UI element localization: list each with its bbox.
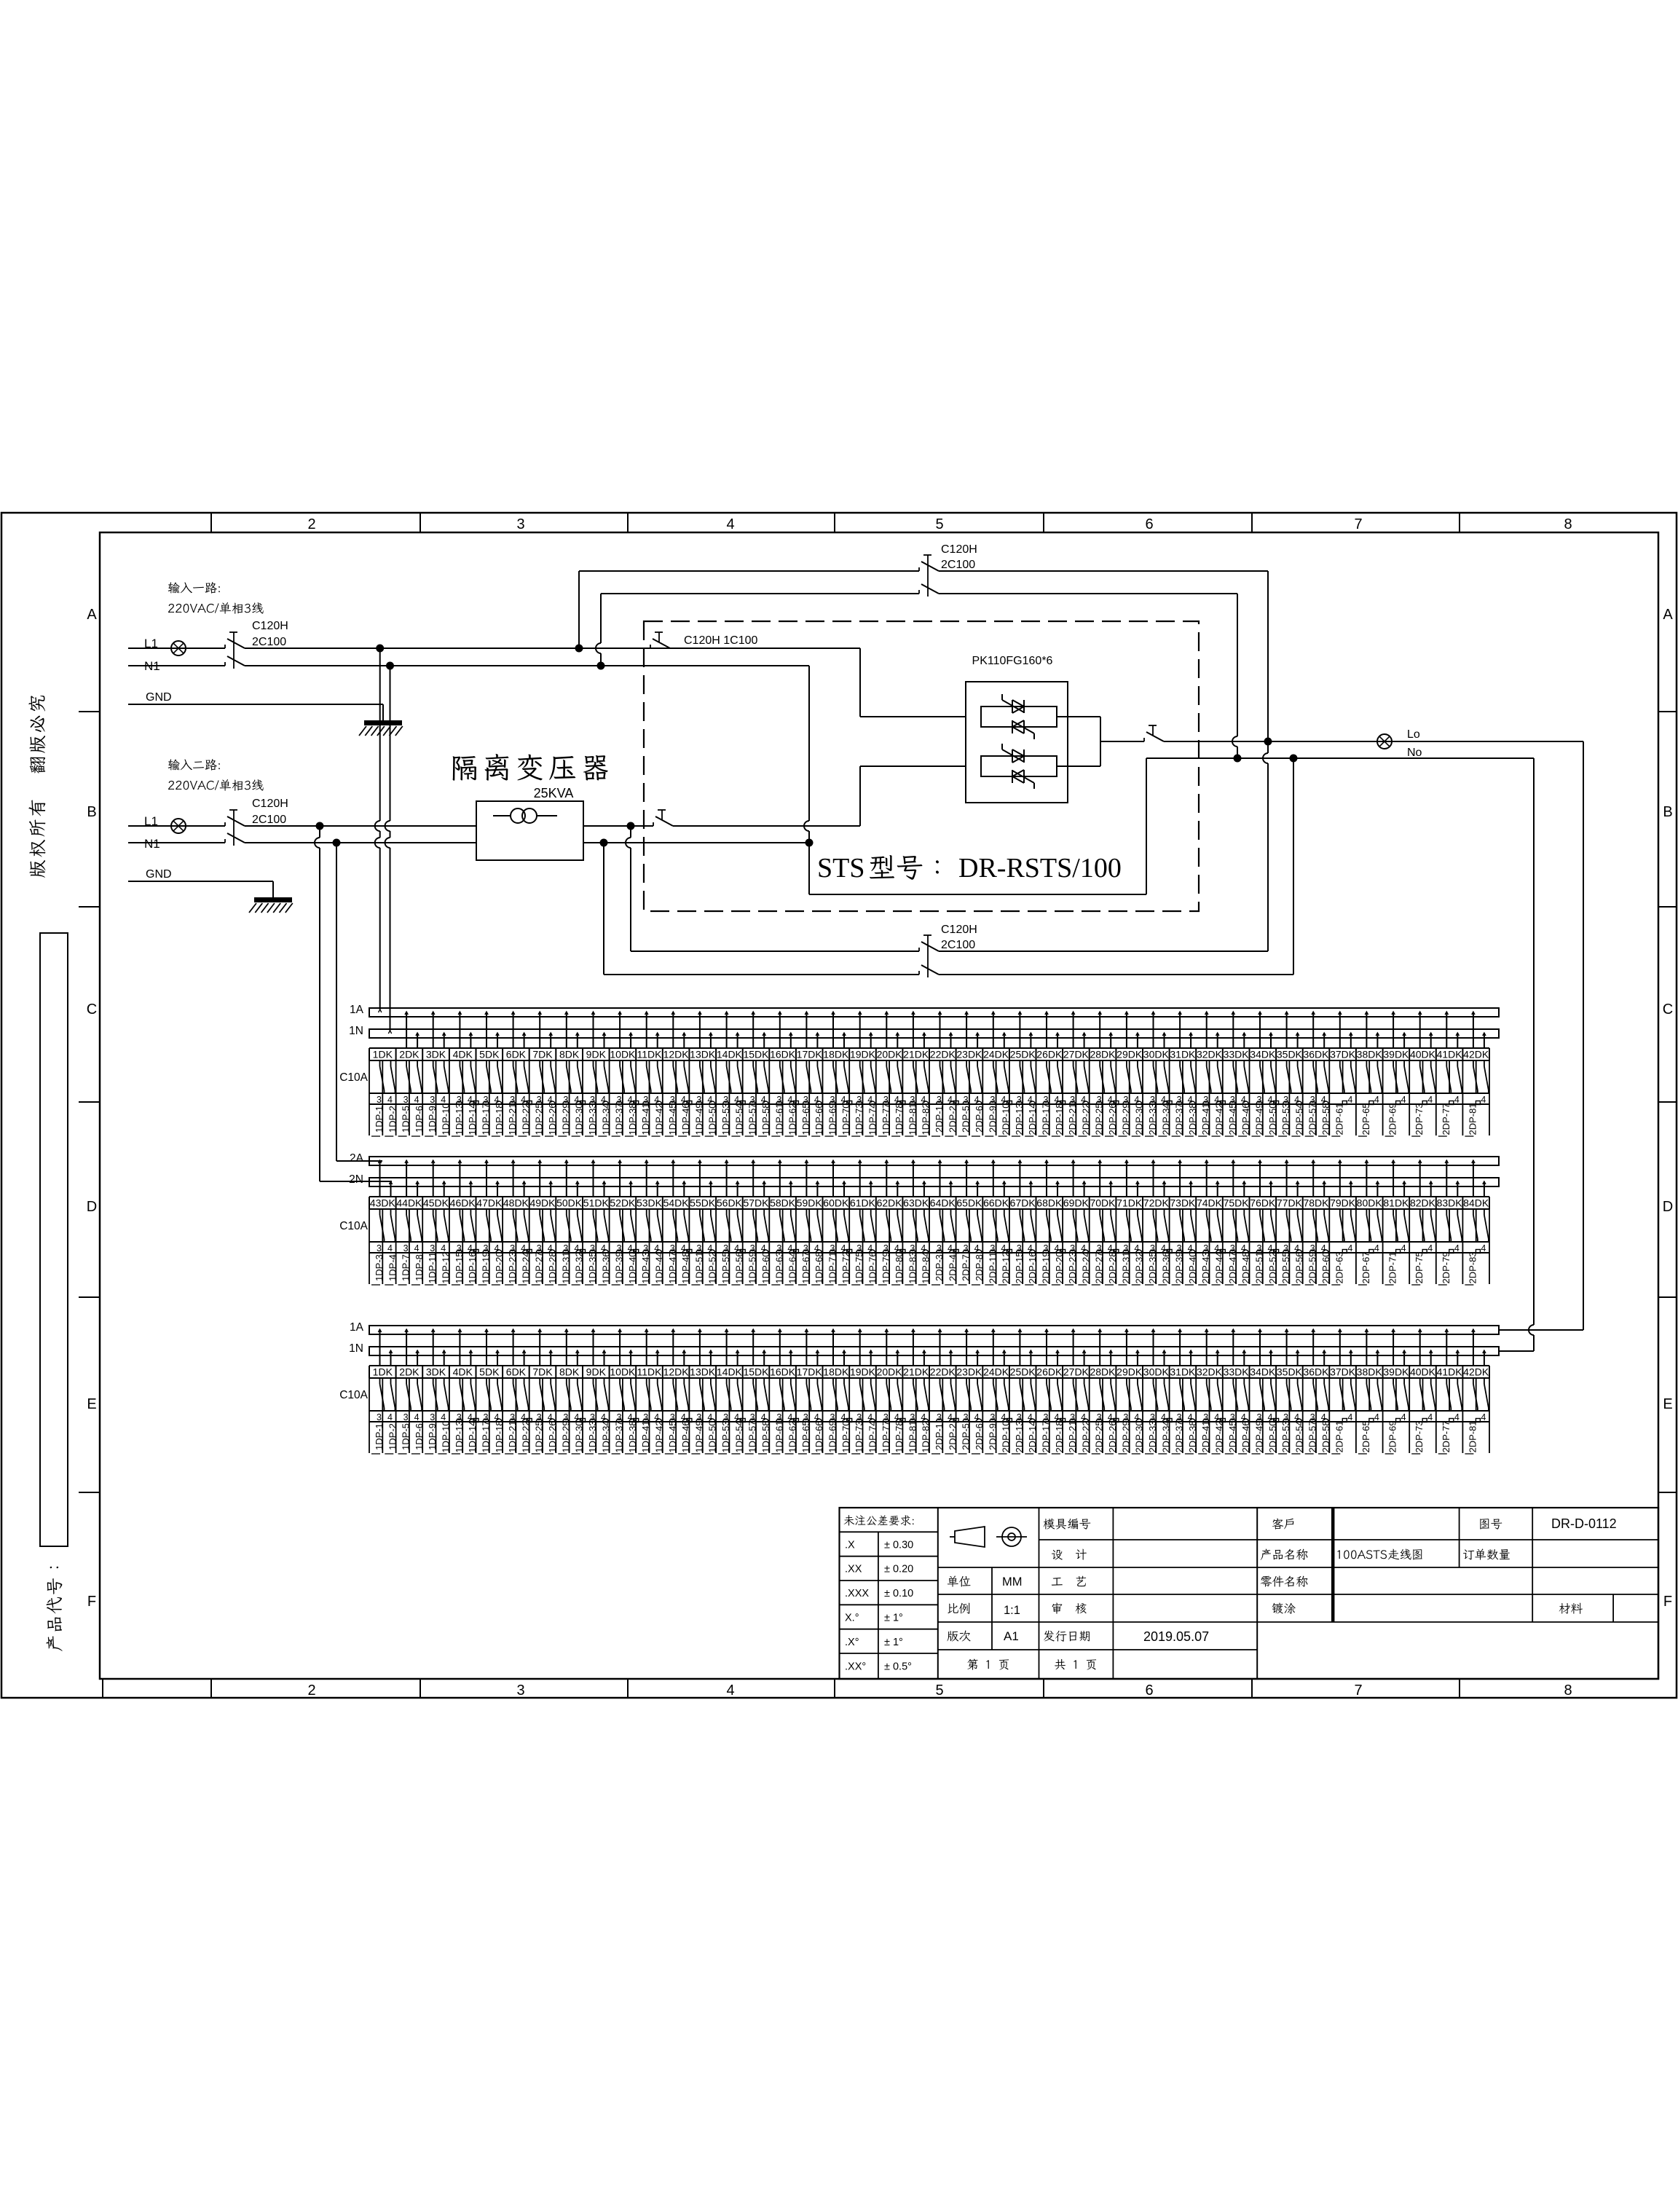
bus 1A row 3	[369, 1326, 1499, 1334]
svg-text:1DP-69: 1DP-69	[827, 1420, 838, 1452]
svg-text:F: F	[87, 1594, 96, 1610]
svg-text:80DK: 80DK	[1357, 1197, 1383, 1209]
svg-text:C120H: C120H	[252, 798, 288, 810]
svg-text:1DP-63: 1DP-63	[773, 1251, 784, 1283]
svg-text:2DP-30: 2DP-30	[1134, 1420, 1145, 1452]
breaker 54DK row 2	[663, 1160, 692, 1285]
svg-text:1DP-61: 1DP-61	[773, 1103, 784, 1135]
svg-text:1DP-41: 1DP-41	[640, 1420, 651, 1452]
svg-text:23DK: 23DK	[956, 1049, 982, 1060]
breaker 33DK row 3	[1224, 1329, 1252, 1454]
svg-text:1DP-51: 1DP-51	[693, 1251, 704, 1283]
svg-text:2DP-27: 2DP-27	[1094, 1251, 1105, 1283]
svg-text:1DP-30: 1DP-30	[574, 1420, 585, 1452]
svg-text:2DP-3: 2DP-3	[934, 1254, 945, 1281]
svg-text:66DK: 66DK	[983, 1197, 1009, 1209]
svg-text:1DP-49: 1DP-49	[693, 1103, 704, 1135]
svg-text:6: 6	[1145, 1682, 1153, 1699]
svg-text:61DK: 61DK	[850, 1197, 876, 1209]
svg-text:4: 4	[1454, 1095, 1460, 1105]
wire N2 to transformer	[245, 842, 476, 843]
svg-text:4DK: 4DK	[453, 1049, 473, 1060]
svg-text:1N: 1N	[349, 1342, 363, 1355]
svg-text:4: 4	[1481, 1095, 1486, 1105]
svg-text:12DK: 12DK	[663, 1049, 690, 1060]
svg-text:1DP-1: 1DP-1	[374, 1106, 385, 1133]
breaker 7DK row 1	[532, 1012, 558, 1136]
projection symbol	[950, 1527, 1027, 1547]
svg-text:3: 3	[377, 1095, 382, 1105]
svg-text:2DP-79: 2DP-79	[1441, 1251, 1451, 1283]
svg-text:7: 7	[1354, 516, 1362, 532]
svg-text:2DP-37: 2DP-37	[1174, 1420, 1185, 1452]
svg-text:71DK: 71DK	[1116, 1197, 1143, 1209]
svg-text:1DP-59: 1DP-59	[747, 1251, 758, 1283]
svg-text:1DP-56: 1DP-56	[733, 1251, 744, 1283]
svg-text:2DP-24: 2DP-24	[1080, 1251, 1091, 1283]
breaker 38DK row 3	[1357, 1329, 1383, 1454]
svg-text:2DP-42: 2DP-42	[1214, 1420, 1225, 1452]
svg-text:1DP-34: 1DP-34	[600, 1420, 611, 1452]
svg-text:1DK: 1DK	[373, 1049, 393, 1060]
isolation transformer label	[453, 756, 476, 781]
svg-text:7DK: 7DK	[532, 1366, 553, 1378]
svg-text:2DK: 2DK	[399, 1049, 419, 1060]
breaker 55DK row 2	[690, 1160, 718, 1285]
bus 2A row 2	[369, 1157, 1499, 1165]
svg-text:79DK: 79DK	[1330, 1197, 1356, 1209]
svg-text:1DP-70: 1DP-70	[840, 1103, 851, 1135]
breaker 42DK row 1	[1463, 1012, 1489, 1136]
svg-text:2DP-7: 2DP-7	[961, 1254, 972, 1281]
title block right labels	[1272, 1519, 1283, 1530]
svg-text:F: F	[1663, 1594, 1672, 1610]
junction neutral common	[805, 839, 814, 847]
svg-text:1:1: 1:1	[1004, 1604, 1020, 1617]
sheet outer border	[1, 513, 1677, 1698]
svg-text:72DK: 72DK	[1143, 1197, 1170, 1209]
svg-text:2DP-35: 2DP-35	[1147, 1251, 1158, 1283]
svg-text:10DK: 10DK	[610, 1049, 636, 1060]
title block right grid	[1257, 1539, 1658, 1540]
svg-text:6DK: 6DK	[506, 1366, 527, 1378]
svg-text:1DP-37: 1DP-37	[614, 1420, 625, 1452]
breaker 14DK row 1	[717, 1012, 745, 1136]
breaker 2DK row 1	[398, 1012, 425, 1136]
breaker 30DK row 1	[1143, 1012, 1172, 1136]
svg-text:1DP-32: 1DP-32	[574, 1251, 585, 1283]
svg-text:48DK: 48DK	[503, 1197, 529, 1209]
breaker 24DK row 3	[983, 1329, 1012, 1454]
svg-text:C120H: C120H	[941, 543, 977, 556]
left margin copyright text	[28, 696, 45, 878]
svg-text:2DP-42: 2DP-42	[1214, 1103, 1225, 1135]
svg-text:2DP-32: 2DP-32	[1134, 1251, 1145, 1283]
svg-text:1DP-1: 1DP-1	[374, 1423, 385, 1450]
svg-text:22DK: 22DK	[930, 1366, 956, 1378]
svg-text:2C100: 2C100	[941, 559, 975, 571]
svg-text:13DK: 13DK	[690, 1366, 716, 1378]
svg-text:1DP-58: 1DP-58	[760, 1420, 771, 1452]
svg-text:1DP-46: 1DP-46	[680, 1103, 691, 1135]
svg-text:1DP-75: 1DP-75	[854, 1251, 864, 1283]
svg-text:8DK: 8DK	[559, 1366, 580, 1378]
svg-text:1DP-12: 1DP-12	[441, 1251, 452, 1283]
svg-text:21DK: 21DK	[903, 1366, 929, 1378]
svg-text:1DP-73: 1DP-73	[854, 1103, 864, 1135]
riser No to row-3 bus 1N	[1533, 758, 1535, 1325]
wire No output	[1146, 757, 1534, 759]
svg-text:4: 4	[1374, 1412, 1379, 1422]
breaker 81DK row 2	[1383, 1160, 1409, 1285]
svg-text:1DP-54: 1DP-54	[733, 1420, 744, 1452]
bus 2N row 2	[369, 1178, 1499, 1186]
junction L1 to bus 1A riser	[376, 645, 384, 653]
svg-text:3: 3	[990, 1243, 995, 1253]
breaker 29DK row 3	[1116, 1329, 1145, 1454]
svg-text:5DK: 5DK	[479, 1049, 500, 1060]
svg-text:2DP-6: 2DP-6	[974, 1106, 985, 1133]
svg-text:± 0.30: ± 0.30	[884, 1539, 913, 1551]
riser input-2 L to bus 2N	[319, 826, 320, 838]
svg-text:3: 3	[377, 1412, 382, 1422]
svg-text:2DP-25: 2DP-25	[1094, 1103, 1105, 1135]
svg-text:2: 2	[307, 1682, 315, 1699]
switch C120H 1C100 input-1 STS	[650, 645, 651, 648]
svg-text:14DK: 14DK	[717, 1049, 743, 1060]
breaker 21DK row 1	[903, 1012, 931, 1136]
breaker 69DK row 2	[1063, 1160, 1092, 1285]
breaker 17DK row 3	[797, 1329, 825, 1454]
breaker 77DK row 2	[1277, 1160, 1305, 1285]
svg-text:59DK: 59DK	[797, 1197, 823, 1209]
svg-text:1DP-73: 1DP-73	[854, 1420, 864, 1452]
svg-text:2: 2	[307, 516, 315, 532]
svg-text:4: 4	[387, 1412, 393, 1422]
svg-text:2DP-14: 2DP-14	[1027, 1103, 1038, 1135]
breaker 49DK row 2	[529, 1160, 558, 1285]
breaker 12DK row 3	[663, 1329, 692, 1454]
svg-text:Lo: Lo	[1407, 728, 1420, 741]
svg-text:1DP-29: 1DP-29	[560, 1103, 571, 1135]
svg-text:4: 4	[1347, 1095, 1352, 1105]
svg-text:1DP-31: 1DP-31	[560, 1251, 571, 1283]
junction L1 to bypass riser	[575, 645, 583, 653]
wire L1 after QF1	[245, 648, 860, 649]
svg-text:2DP-12: 2DP-12	[1001, 1251, 1012, 1283]
svg-text:2DP-21: 2DP-21	[1067, 1103, 1078, 1135]
svg-text:4: 4	[1401, 1412, 1406, 1422]
breaker 17DK row 1	[797, 1012, 825, 1136]
svg-text:4: 4	[1454, 1412, 1460, 1422]
breaker 18DK row 3	[823, 1329, 851, 1454]
svg-text:15DK: 15DK	[743, 1366, 769, 1378]
svg-text:± 0.5°: ± 0.5°	[884, 1661, 912, 1672]
svg-text:57DK: 57DK	[743, 1197, 769, 1209]
svg-text:67DK: 67DK	[1010, 1197, 1036, 1209]
lamp input-2	[171, 819, 186, 833]
breaker 19DK row 1	[850, 1012, 878, 1136]
breaker 37DK row 1	[1330, 1012, 1356, 1136]
svg-text:2DP-61: 2DP-61	[1334, 1103, 1344, 1135]
svg-text:2DP-53: 2DP-53	[1280, 1103, 1291, 1135]
breaker 26DK row 1	[1036, 1012, 1065, 1136]
svg-text:3: 3	[430, 1243, 435, 1253]
svg-text:40DK: 40DK	[1410, 1366, 1436, 1378]
svg-text:7: 7	[1354, 1682, 1362, 1699]
svg-text:2N: 2N	[349, 1173, 363, 1186]
svg-text:2DP-15: 2DP-15	[1014, 1251, 1025, 1283]
riser input-1 N to bus 1N	[390, 666, 391, 821]
breaker 38DK row 1	[1357, 1012, 1383, 1136]
breaker 29DK row 1	[1116, 1012, 1145, 1136]
breaker 40DK row 3	[1410, 1329, 1436, 1454]
svg-text:38DK: 38DK	[1357, 1049, 1383, 1060]
breaker 37DK row 3	[1330, 1329, 1356, 1454]
breaker 80DK row 2	[1357, 1160, 1383, 1285]
breaker 25DK row 3	[1010, 1329, 1039, 1454]
svg-text:C120H 1C100: C120H 1C100	[684, 634, 758, 647]
breaker 9DK row 1	[585, 1012, 611, 1136]
svg-text:2DP-65: 2DP-65	[1360, 1420, 1371, 1452]
svg-text:4: 4	[1427, 1412, 1433, 1422]
breaker 28DK row 1	[1090, 1012, 1118, 1136]
svg-text:5: 5	[935, 1682, 943, 1699]
svg-text:1DP-10: 1DP-10	[441, 1420, 452, 1452]
svg-text:55DK: 55DK	[690, 1197, 716, 1209]
svg-text:± 0.20: ± 0.20	[884, 1564, 913, 1575]
svg-text:± 1°: ± 1°	[884, 1613, 903, 1624]
svg-text:4: 4	[948, 1095, 953, 1105]
svg-text:1A: 1A	[350, 1004, 364, 1016]
svg-text:C: C	[1663, 1001, 1673, 1018]
breaker 84DK row 2	[1463, 1160, 1489, 1285]
svg-text:2DP-1: 2DP-1	[934, 1423, 945, 1450]
svg-text:1DP-25: 1DP-25	[534, 1420, 545, 1452]
breaker 62DK row 2	[877, 1160, 905, 1285]
svg-text:1DP-22: 1DP-22	[520, 1103, 531, 1135]
svg-text:2DP-38: 2DP-38	[1187, 1420, 1198, 1452]
svg-text:2DP-29: 2DP-29	[1120, 1103, 1131, 1135]
svg-text:4DK: 4DK	[453, 1366, 473, 1378]
svg-text:2DP-46: 2DP-46	[1240, 1420, 1251, 1452]
svg-text:3: 3	[964, 1243, 969, 1253]
svg-text:74DK: 74DK	[1197, 1197, 1223, 1209]
wire ferrule marks row 2	[456, 1250, 462, 1253]
svg-text:2DP-29: 2DP-29	[1120, 1420, 1131, 1452]
svg-text:2DP-9: 2DP-9	[987, 1106, 998, 1133]
svg-text:2DP-77: 2DP-77	[1441, 1420, 1451, 1452]
breaker 9DK row 3	[585, 1329, 611, 1454]
svg-text:2DP-9: 2DP-9	[987, 1423, 998, 1450]
svg-text:2DP-36: 2DP-36	[1160, 1251, 1171, 1283]
feed wire No into row-3 bus 1N	[1500, 1350, 1534, 1352]
svg-text:4: 4	[948, 1412, 953, 1422]
svg-text:2DP-81: 2DP-81	[1467, 1103, 1478, 1135]
svg-text:41DK: 41DK	[1437, 1049, 1463, 1060]
breaker 30DK row 3	[1143, 1329, 1172, 1454]
svg-text:PK110FG160*6: PK110FG160*6	[972, 655, 1053, 667]
svg-text:1DP-57: 1DP-57	[747, 1420, 758, 1452]
svg-text:20DK: 20DK	[877, 1049, 903, 1060]
breaker 19DK row 3	[850, 1329, 878, 1454]
svg-text:1DP-26: 1DP-26	[547, 1103, 558, 1135]
svg-text:2C100: 2C100	[252, 814, 286, 826]
svg-text:2019.05.07: 2019.05.07	[1143, 1629, 1209, 1644]
breaker 5DK row 1	[478, 1012, 505, 1136]
svg-text:1DP-77: 1DP-77	[881, 1420, 891, 1452]
breaker 51DK row 2	[583, 1160, 612, 1285]
sheet inner border	[100, 532, 1658, 1679]
breaker 68DK row 2	[1036, 1160, 1065, 1285]
svg-text:2DP-63: 2DP-63	[1334, 1251, 1344, 1283]
product code label	[47, 1567, 63, 1651]
svg-text:2DP-69: 2DP-69	[1387, 1103, 1398, 1135]
svg-text:2DP-20: 2DP-20	[1054, 1251, 1065, 1283]
svg-text:3: 3	[403, 1412, 409, 1422]
breaker 32DK row 1	[1197, 1012, 1225, 1136]
breaker 20DK row 3	[877, 1329, 905, 1454]
breaker 1DK row 3	[371, 1329, 398, 1454]
svg-text:1DK: 1DK	[373, 1366, 393, 1378]
svg-text:9DK: 9DK	[586, 1366, 607, 1378]
breaker 2DK row 3	[398, 1329, 425, 1454]
svg-text:1DP-38: 1DP-38	[627, 1103, 638, 1135]
svg-text:2DP-30: 2DP-30	[1134, 1103, 1145, 1135]
svg-text:1DP-21: 1DP-21	[507, 1420, 518, 1452]
breaker 75DK row 2	[1224, 1160, 1252, 1285]
svg-text:1DP-79: 1DP-79	[881, 1251, 891, 1283]
svg-text:1DP-66: 1DP-66	[814, 1103, 824, 1135]
svg-text:63DK: 63DK	[903, 1197, 929, 1209]
svg-text:3: 3	[377, 1243, 382, 1253]
breaker 61DK row 2	[850, 1160, 878, 1285]
riser input-2 N to bus 2A	[336, 843, 337, 1161]
svg-text:1DP-40: 1DP-40	[627, 1251, 638, 1283]
svg-text:26DK: 26DK	[1036, 1366, 1063, 1378]
svg-text:11DK: 11DK	[637, 1049, 663, 1060]
breaker 71DK row 2	[1116, 1160, 1145, 1285]
svg-text:17DK: 17DK	[797, 1366, 823, 1378]
svg-text:1DP-68: 1DP-68	[814, 1251, 824, 1283]
neutral detour path	[808, 843, 810, 894]
svg-text:2DP-54: 2DP-54	[1293, 1420, 1304, 1452]
svg-text:3: 3	[430, 1095, 435, 1105]
svg-text:.XXX: .XXX	[845, 1588, 869, 1599]
svg-text:2DP-43: 2DP-43	[1200, 1251, 1211, 1283]
svg-text:2DP-75: 2DP-75	[1414, 1251, 1425, 1283]
svg-text:78DK: 78DK	[1303, 1197, 1329, 1209]
svg-text:1DP-8: 1DP-8	[414, 1254, 425, 1281]
svg-text:1DP-33: 1DP-33	[587, 1103, 598, 1135]
svg-text:2DP-26: 2DP-26	[1107, 1420, 1118, 1452]
breaker 8DK row 1	[558, 1012, 584, 1136]
svg-text:1DP-78: 1DP-78	[894, 1420, 905, 1452]
svg-text:5: 5	[935, 516, 943, 532]
svg-text:1DP-5: 1DP-5	[401, 1106, 411, 1133]
svg-text:MM: MM	[1002, 1575, 1023, 1589]
svg-text:3DK: 3DK	[426, 1049, 446, 1060]
svg-text:2DP-54: 2DP-54	[1293, 1103, 1304, 1135]
svg-text:64DK: 64DK	[930, 1197, 956, 1209]
svg-text:3: 3	[516, 1682, 524, 1699]
svg-text:2DP-50: 2DP-50	[1267, 1420, 1278, 1452]
breaker 6DK row 1	[505, 1012, 531, 1136]
switch input-2 STS isolation	[653, 822, 654, 826]
svg-text:54DK: 54DK	[663, 1197, 690, 1209]
svg-text:29DK: 29DK	[1116, 1049, 1143, 1060]
svg-text:.XX°: .XX°	[845, 1661, 866, 1672]
breaker 72DK row 2	[1143, 1160, 1172, 1285]
junction bypass-2 bottom on No	[1290, 755, 1298, 763]
ruler ticks and zone labels	[210, 513, 212, 532]
svg-text:1DP-38: 1DP-38	[627, 1420, 638, 1452]
thyristor pair 1	[981, 706, 1057, 727]
svg-text:1DP-52: 1DP-52	[707, 1251, 718, 1283]
svg-text:25KVA: 25KVA	[534, 786, 574, 800]
breaker 3DK row 3	[425, 1329, 451, 1454]
svg-text:2DP-17: 2DP-17	[1041, 1420, 1052, 1452]
svg-text:2DP-44: 2DP-44	[1214, 1251, 1225, 1283]
breaker 28DK row 3	[1090, 1329, 1118, 1454]
riser top bypass 1 to Lo	[1267, 571, 1269, 753]
svg-text:1DP-82: 1DP-82	[921, 1103, 931, 1135]
breaker 13DK row 3	[690, 1329, 718, 1454]
svg-text:2A: 2A	[350, 1152, 364, 1165]
svg-text:No: No	[1407, 747, 1422, 759]
svg-text:C10A: C10A	[339, 1220, 368, 1232]
bus 1N row 1	[369, 1029, 1499, 1038]
svg-text:A: A	[87, 607, 97, 623]
breaker 36DK row 3	[1303, 1329, 1331, 1454]
svg-text:2DP-34: 2DP-34	[1160, 1420, 1171, 1452]
svg-text:1DP-4: 1DP-4	[387, 1254, 398, 1281]
svg-text:1DP-84: 1DP-84	[921, 1251, 931, 1283]
breaker 59DK row 2	[797, 1160, 825, 1285]
breaker 15DK row 3	[743, 1329, 771, 1454]
svg-text:1DP-49: 1DP-49	[693, 1420, 704, 1452]
breaker 18DK row 1	[823, 1012, 851, 1136]
svg-text:1DP-14: 1DP-14	[467, 1103, 478, 1135]
breaker 23DK row 1	[956, 1012, 985, 1136]
svg-text:2DP-65: 2DP-65	[1360, 1103, 1371, 1135]
breaker 60DK row 2	[823, 1160, 851, 1285]
svg-text:2DP-21: 2DP-21	[1067, 1420, 1078, 1452]
svg-text:2DP-58: 2DP-58	[1320, 1103, 1331, 1135]
svg-text:2DP-81: 2DP-81	[1467, 1420, 1478, 1452]
svg-text:2DP-73: 2DP-73	[1414, 1103, 1425, 1135]
svg-text:4: 4	[974, 1412, 980, 1422]
svg-text:2DP-38: 2DP-38	[1187, 1103, 1198, 1135]
svg-text:77DK: 77DK	[1277, 1197, 1303, 1209]
breaker 42DK row 3	[1463, 1329, 1489, 1454]
svg-text:1DP-18: 1DP-18	[494, 1420, 505, 1452]
svg-text:2DP-59: 2DP-59	[1307, 1251, 1318, 1283]
svg-text:1DP-15: 1DP-15	[454, 1251, 465, 1283]
svg-text:2DP-14: 2DP-14	[1027, 1420, 1038, 1452]
breaker 25DK row 1	[1010, 1012, 1039, 1136]
svg-text:1DP-23: 1DP-23	[507, 1251, 518, 1283]
riser bottom bypass 2 to No	[1293, 758, 1294, 975]
svg-text:2DP-18: 2DP-18	[1054, 1420, 1065, 1452]
svg-text:16DK: 16DK	[770, 1366, 796, 1378]
svg-text:1DP-48: 1DP-48	[680, 1251, 691, 1283]
svg-text:1DP-29: 1DP-29	[560, 1420, 571, 1452]
breaker 40DK row 1	[1410, 1012, 1436, 1136]
svg-text:A: A	[1663, 607, 1673, 623]
breaker 63DK row 2	[903, 1160, 931, 1285]
svg-text:2DP-61: 2DP-61	[1334, 1420, 1344, 1452]
